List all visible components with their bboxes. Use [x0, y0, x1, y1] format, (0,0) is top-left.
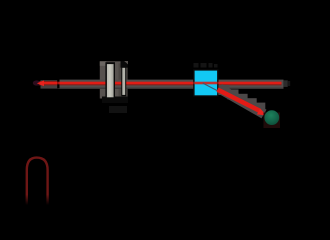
modulator body (gray housing, right part)	[119, 63, 128, 97]
beamsplitter cube (cyan)	[195, 71, 218, 96]
polarizer gap marker (black tick on beam)	[57, 79, 59, 88]
faint label below modulator	[109, 106, 127, 113]
beam glow band (horizontal, main)	[58, 80, 284, 89]
reflected beam glow band (diagonal, stepped gray)	[220, 89, 265, 115]
beam glow band (horizontal, left of gap)	[41, 80, 58, 88]
modulator top-right notch (black)	[121, 61, 129, 68]
beam arrowhead (left, pointing left)	[37, 80, 44, 86]
modulator notch gray corner	[124, 61, 128, 64]
electro-optic plate 2 (small, black frame)	[121, 67, 126, 97]
photodetector (teal circle)	[264, 110, 279, 125]
beam terminator block (right end)	[283, 80, 287, 87]
modulator body (gray housing, left part)	[100, 61, 121, 98]
faint label above cube	[194, 63, 218, 68]
pulse shape (dark red arch)	[27, 158, 48, 205]
reflected beam arrowhead	[257, 108, 267, 115]
detector halo (dark maroon square)	[264, 113, 281, 129]
electro-optic plate 1 (large, black frame)	[105, 62, 115, 99]
modulator housing highlight	[100, 61, 107, 66]
beam crossing cube borders (dim red)	[193, 82, 194, 84]
reflected ray (thin dark line in cube)	[203, 83, 223, 94]
beam glow band bottom fade	[58, 88, 284, 89]
electro-optic plate 2 fill	[122, 68, 125, 95]
beam inside cube (dimmed red)	[195, 82, 218, 85]
beamsplitter cube border	[193, 69, 218, 96]
faint halo at arrow tip	[33, 80, 41, 85]
modulator base (black)	[102, 97, 128, 104]
electro-optic plate 1 fill	[107, 64, 114, 97]
reflected beam (thick red diagonal)	[218, 90, 260, 111]
laser beam (horizontal red line)	[39, 80, 58, 83]
